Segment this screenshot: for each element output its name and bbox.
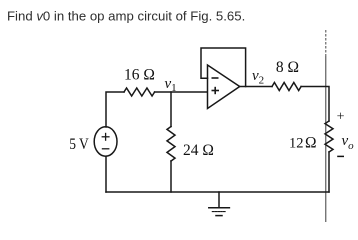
svg-text:24 Ω: 24 Ω	[183, 142, 214, 159]
svg-text:v2: v2	[252, 68, 264, 87]
svg-text:Ω: Ω	[305, 135, 317, 152]
wire: 12-ohm down to bottom rail	[328, 152, 330, 192]
wire: 24-ohm down to bottom rail	[170, 161, 172, 192]
source polarity +	[102, 133, 110, 149]
resistor R 12 ohm	[325, 121, 333, 152]
source polarity -	[102, 148, 110, 150]
wire: top-left corner to 16-ohm resistor	[106, 92, 124, 127]
op-amp minus sign	[212, 78, 220, 94]
wire: feedback loop (output up, over, down to inverting input)	[201, 48, 246, 87]
page column rule (thin vertical line, right side)	[325, 30, 327, 56]
svg-text:12: 12	[289, 136, 304, 152]
resistor R 16 ohm	[124, 88, 155, 96]
ground: bar 3	[216, 215, 222, 217]
svg-text:v1: v1	[165, 76, 177, 94]
svg-text:Find v0 in the op amp circuit: Find v0 in the op amp circuit of Fig. 5.…	[7, 9, 245, 24]
ground: bar 2	[212, 211, 225, 213]
op-amp U1 triangle	[208, 65, 240, 109]
svg-text:+: +	[337, 110, 345, 125]
ground: bar 1	[209, 207, 230, 209]
op-amp plus sign	[212, 90, 220, 92]
svg-text:vo: vo	[342, 133, 355, 152]
wire: 8-ohm to right branch corner	[301, 87, 329, 122]
resistor R 8 ohm	[272, 83, 301, 91]
wire: 16-ohm to v1 node to op-amp + input	[155, 91, 208, 93]
wire: source bottom to bottom rail	[105, 156, 107, 192]
svg-text:8 Ω: 8 Ω	[276, 59, 299, 76]
ground: stub	[218, 192, 220, 208]
bottom rail wire	[106, 191, 329, 193]
svg-text:5 V: 5 V	[69, 136, 89, 153]
wire: op-amp output to 8-ohm resistor	[240, 86, 272, 88]
wire: v1 node down to 24-ohm resistor	[170, 92, 172, 127]
output - polarity	[337, 155, 344, 157]
resistor R 24 ohm	[167, 127, 175, 162]
voltage source V1 5V	[94, 127, 117, 156]
svg-text:16 Ω: 16 Ω	[124, 67, 155, 84]
